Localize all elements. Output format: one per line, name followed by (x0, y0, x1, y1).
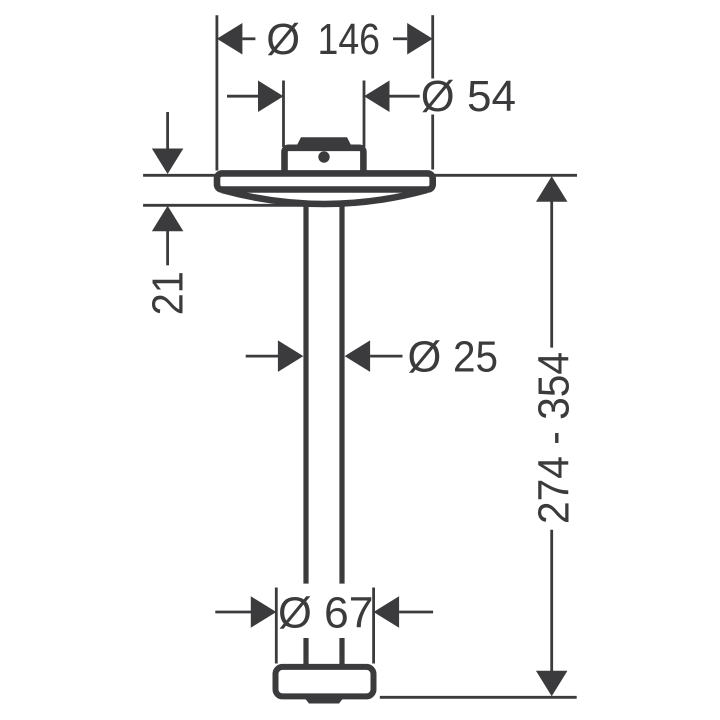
svg-text:Ø: Ø (278, 589, 312, 637)
svg-text:Ø: Ø (421, 73, 455, 121)
svg-text:274 - 354: 274 - 354 (531, 352, 579, 524)
svg-text:54: 54 (467, 73, 516, 121)
svg-text:21: 21 (144, 271, 192, 315)
svg-text:25: 25 (453, 334, 498, 382)
svg-text:146: 146 (318, 16, 381, 64)
svg-text:Ø: Ø (408, 334, 442, 382)
svg-text:67: 67 (324, 589, 374, 637)
svg-text:Ø: Ø (266, 16, 300, 64)
